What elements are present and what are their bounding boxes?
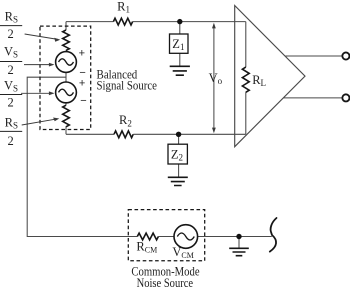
svg-text:2: 2 <box>8 63 14 77</box>
svg-text:+: + <box>79 47 85 59</box>
svg-text:+: + <box>79 77 85 89</box>
svg-text:Signal Source: Signal Source <box>97 77 158 92</box>
svg-text:2: 2 <box>8 96 14 110</box>
svg-text:−: − <box>80 95 86 107</box>
svg-text:2: 2 <box>8 27 14 41</box>
svg-text:2: 2 <box>8 134 14 148</box>
svg-text:Noise Source: Noise Source <box>137 275 194 289</box>
